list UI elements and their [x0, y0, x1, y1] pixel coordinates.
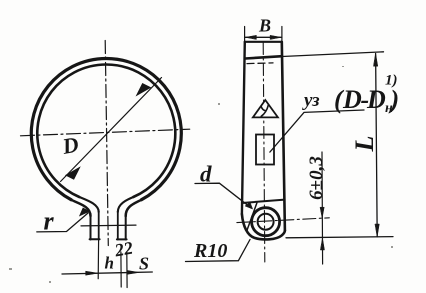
svg-text:h: h	[105, 254, 114, 273]
svg-text:22: 22	[112, 238, 134, 261]
svg-text:уз: уз	[302, 90, 320, 111]
svg-text:6±0,3: 6±0,3	[306, 156, 327, 200]
svg-text:B: B	[258, 16, 271, 36]
svg-text:d: d	[200, 162, 212, 187]
svg-text:R10: R10	[193, 240, 227, 262]
svg-text:1): 1)	[385, 73, 398, 89]
svg-text:r: r	[44, 207, 55, 236]
svg-text:S: S	[139, 254, 149, 274]
svg-text:L: L	[350, 136, 379, 153]
